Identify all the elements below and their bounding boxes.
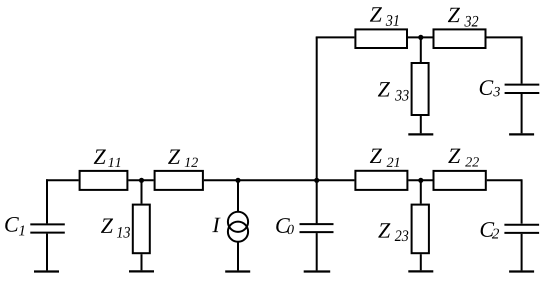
ground for C0 (304, 270, 331, 272)
ground for C1 (34, 270, 59, 272)
resistor Z21 (355, 171, 407, 190)
resistor Z23 (412, 205, 429, 254)
label C2 subscript (492, 229, 499, 239)
label Z32 subscript (464, 16, 478, 27)
wire C1 lower lead (46, 234, 48, 271)
wire bottom bus middle segment (204, 179, 355, 181)
label I source (212, 218, 220, 232)
capacitor C1 plates (30, 224, 65, 232)
wire top bus left segment (316, 36, 355, 38)
label Z33 subscript (395, 90, 409, 101)
label Z12 letter (168, 149, 180, 163)
ground for Z23 (408, 270, 433, 272)
label C3 letter (480, 80, 494, 95)
wire between Z11 and Z12 (128, 179, 153, 181)
ground for current source (225, 270, 250, 272)
label Z11 subscript (108, 158, 120, 167)
label Z22 subscript (465, 157, 479, 166)
node junction dot D Z23 tap (418, 178, 423, 183)
wire Z13 drop (141, 180, 143, 203)
label Z21 letter (370, 149, 382, 163)
node junction dot B current source tap (235, 178, 240, 183)
wire Z22 to right rail (487, 179, 522, 181)
node junction dot E Z33 tap (418, 35, 423, 40)
wire between Z21 and Z22 (408, 179, 432, 181)
wire Z23 drop (420, 180, 422, 203)
label Z23 letter (378, 223, 390, 237)
ground for Z33 (408, 133, 433, 135)
resistor Z11 (80, 171, 128, 190)
node junction dot C trunk tap (314, 178, 319, 183)
ground for C2 (509, 270, 534, 272)
resistor Z22 (434, 171, 486, 190)
label Z31 subscript (386, 15, 399, 26)
capacitor C0 plates (300, 224, 334, 232)
label C2 letter (481, 222, 495, 237)
resistor Z13 (133, 205, 150, 254)
wire Z32 to right rail (487, 36, 522, 38)
ground for C3 (509, 133, 534, 135)
resistor Z12 (155, 171, 203, 190)
wire C0 lower lead (316, 233, 318, 270)
wire Z23 lower lead (420, 254, 422, 270)
wire C3 lower lead (521, 94, 523, 133)
wire C1 riser (46, 179, 48, 223)
node junction dot A (139, 178, 144, 183)
label C1 subscript (19, 226, 24, 236)
label Z13 subscript (117, 227, 130, 238)
wire C3 riser (521, 36, 523, 83)
label Z11 letter (94, 149, 106, 163)
wire Z33 drop (420, 37, 422, 62)
label C3 subscript (493, 87, 500, 96)
wire trunk vertical top network to C0 (316, 37, 318, 223)
wire Z13 lower lead (141, 254, 143, 270)
capacitor C2 plates (504, 225, 539, 233)
label C1 letter (5, 217, 19, 232)
wire current source lower lead (237, 242, 239, 271)
label Z22 letter (448, 149, 460, 163)
wire Z33 lower lead (420, 116, 422, 133)
resistor Z32 (434, 29, 486, 48)
label Z21 subscript (387, 158, 399, 167)
ground for Z13 (129, 270, 154, 272)
wire C2 riser (521, 179, 523, 223)
label Z32 letter (448, 8, 460, 22)
wire current source upper lead (237, 180, 239, 212)
wire C2 lower lead (521, 234, 523, 271)
label Z31 letter (370, 7, 382, 21)
wire between Z31 and Z32 (408, 36, 433, 38)
current source I upper circle (228, 212, 248, 232)
wire bottom bus left segment (46, 179, 79, 181)
label Z13 letter (101, 218, 113, 232)
resistor Z33 (412, 63, 429, 115)
label C0 letter (276, 218, 290, 233)
label Z23 subscript (395, 230, 409, 241)
label Z33 letter (378, 82, 390, 96)
label Z12 subscript (185, 158, 198, 167)
resistor Z31 (355, 29, 407, 48)
current source I lower circle (228, 222, 248, 242)
label C0 subscript (288, 225, 294, 234)
capacitor C3 plates (505, 85, 540, 93)
